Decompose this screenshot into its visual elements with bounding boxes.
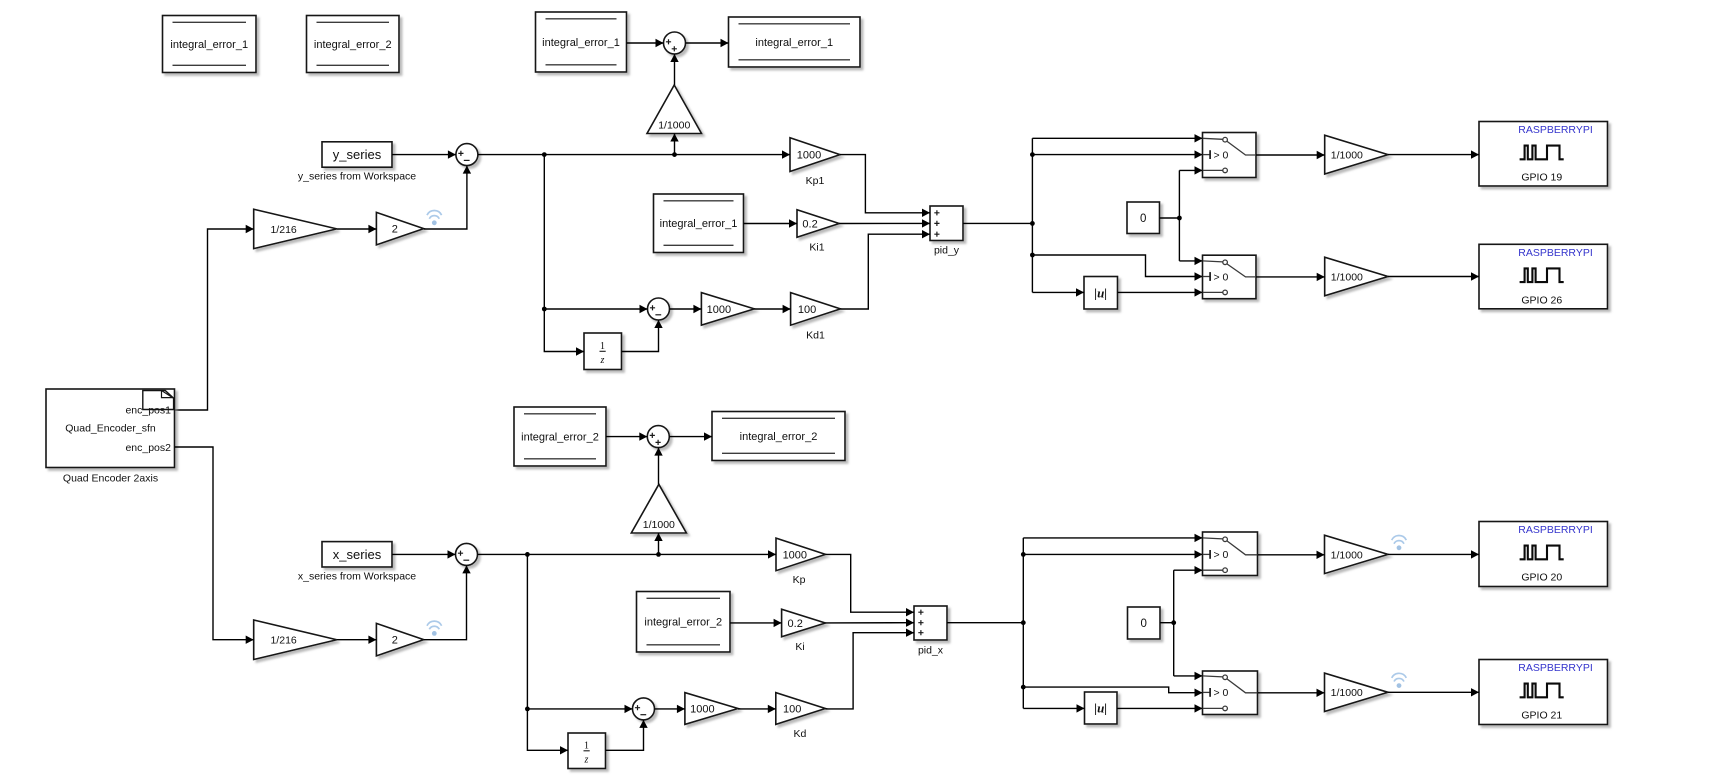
svg-text:RASPBERRYPI: RASPBERRYPI	[1518, 524, 1593, 536]
wire enc_pos2 to 1/216 (x)	[175, 447, 254, 644]
wireless badge on gain 2 (x)	[427, 621, 442, 636]
wire 1/z to S6 (x)	[606, 720, 648, 750]
wire trunk to abs (x)	[1023, 704, 1084, 712]
switch SW1 (y dir)	[1203, 133, 1257, 178]
unit delay 1/z (y)	[584, 333, 622, 370]
svg-text:0.2: 0.2	[802, 218, 817, 230]
label Ki	[795, 641, 804, 653]
subsystem Quad_Encoder_sfn	[46, 389, 175, 468]
label Kp	[793, 574, 806, 586]
svg-text:integral_error_2: integral_error_2	[521, 431, 599, 443]
gain 1000 (y derivative)	[701, 293, 754, 326]
sink GPIO 19 (RASPBERRYPI)	[1479, 122, 1608, 187]
wire x_series to S5	[392, 550, 456, 558]
wire branch down y error	[542, 155, 584, 356]
source block y_series	[322, 142, 392, 167]
data store read integral_error_1 (Ki path)	[654, 194, 744, 253]
svg-text:integral_error_1: integral_error_1	[755, 37, 833, 49]
svg-text:integral_error_1: integral_error_1	[542, 37, 620, 49]
svg-text:GPIO 19: GPIO 19	[1521, 172, 1562, 184]
sink GPIO 20 (RASPBERRYPI)	[1479, 522, 1608, 587]
svg-text:y_series from Workspace: y_series from Workspace	[298, 171, 416, 183]
svg-text:Quad_Encoder_sfn: Quad_Encoder_sfn	[65, 422, 156, 434]
data store read integral_error_2 (Ki path)	[637, 592, 731, 653]
svg-text:Kd: Kd	[793, 728, 806, 740]
svg-text:> 0: > 0	[1214, 549, 1229, 561]
svg-text:y_series: y_series	[333, 147, 382, 162]
sink GPIO 21 (RASPBERRYPI)	[1479, 660, 1608, 725]
wire Kd1 to pid_y in3	[840, 230, 930, 309]
svg-text:RASPBERRYPI: RASPBERRYPI	[1518, 124, 1593, 136]
wire gain2 to S5	[424, 565, 471, 639]
abs block |u| (x)	[1085, 692, 1118, 724]
svg-text:1: 1	[600, 341, 605, 352]
wire 1/1000d to GPIO21	[1388, 688, 1479, 696]
wire SW4 to 1/1000d	[1258, 689, 1325, 697]
wire const0 branch (x)	[1160, 620, 1176, 625]
sum block pid_x	[914, 606, 947, 640]
svg-text:Quad Encoder 2axis: Quad Encoder 2axis	[63, 472, 158, 484]
wire S6 to 1000 (x)	[655, 705, 685, 713]
svg-text:GPIO 26: GPIO 26	[1521, 295, 1562, 307]
svg-text:Kd1: Kd1	[806, 329, 825, 341]
wire branch to 1/1000 up	[670, 134, 678, 155]
annotation y_series from Workspace	[298, 171, 416, 183]
wire S2 to Kp1 (main y error)	[478, 150, 790, 158]
wire branch to S6	[527, 705, 632, 713]
wire SW2 to 1/1000b	[1256, 273, 1325, 281]
svg-text:1/216: 1/216	[270, 224, 296, 236]
wire const0 branch (y)	[1160, 216, 1182, 221]
wire const0 to SW3 in3	[1174, 566, 1203, 574]
svg-text:1/1000: 1/1000	[643, 519, 675, 531]
wire branch to 1/1000 up (x)	[654, 533, 662, 554]
gain Ki1 0.2	[797, 210, 839, 238]
sum block pid_y	[930, 206, 963, 241]
gain 1/1000 (GPIO19 scale)	[1325, 135, 1388, 174]
wire Ki1 to pid_y in2	[839, 219, 930, 227]
svg-text:RASPBERRYPI: RASPBERRYPI	[1518, 247, 1593, 259]
gain 1/1000 (GPIO20 scale)	[1325, 535, 1389, 573]
svg-text:enc_pos1: enc_pos1	[125, 405, 171, 417]
label pid_x	[918, 645, 944, 657]
svg-text:1/1000: 1/1000	[1331, 150, 1363, 162]
svg-text:integral_error_2: integral_error_2	[314, 39, 392, 51]
label Kd1	[806, 329, 825, 341]
wire branch down x error	[525, 554, 568, 754]
wire const0 vertical (x)	[1173, 570, 1175, 676]
svg-text:RASPBERRYPI: RASPBERRYPI	[1518, 662, 1593, 674]
svg-text:> 0: > 0	[1214, 271, 1229, 283]
wire const0 vertical (y)	[1178, 170, 1180, 261]
switch SW3 (x dir)	[1203, 532, 1258, 576]
wire trunk to abs	[1032, 288, 1084, 296]
wire trunk to SW3 in2	[1023, 550, 1202, 558]
wire trunk to SW1 in1	[1032, 134, 1202, 142]
label Kp1	[806, 175, 825, 187]
wire S1 to DSW	[686, 39, 729, 47]
wire y_series to S2	[392, 150, 456, 158]
wire SW1 to 1/1000	[1256, 151, 1325, 159]
data store memory integral_error_2	[307, 16, 400, 73]
gain Kp1 1000	[790, 138, 840, 172]
svg-text:1/1000: 1/1000	[658, 120, 690, 132]
gain 1/216 (x)	[254, 620, 337, 660]
svg-text:> 0: > 0	[1214, 149, 1229, 161]
constant 0 (x)	[1128, 607, 1161, 639]
wire 1/1000c to GPIO20	[1388, 550, 1479, 558]
svg-text:Kp: Kp	[793, 574, 806, 586]
wire DSR2 Ki to Ki	[730, 619, 782, 627]
wire gain1/1000up to S1	[670, 54, 678, 85]
svg-text:integral_error_2: integral_error_2	[740, 431, 818, 443]
gain 1/216 (y)	[254, 209, 337, 248]
svg-text:100: 100	[783, 703, 801, 715]
svg-text:0: 0	[1140, 213, 1146, 225]
label Ki1	[809, 241, 824, 253]
wire S5 to Kp (main x error)	[478, 550, 777, 558]
svg-text:pid_x: pid_x	[918, 645, 944, 657]
wire pid_y trunk vertical	[1030, 138, 1035, 292]
sum S4 (x integrator)	[647, 426, 669, 448]
wire 1/216 to 2 (x)	[337, 636, 377, 644]
wire const0 to SW1 in3	[1179, 166, 1202, 174]
wire const0 to SW2 in1	[1179, 257, 1202, 265]
wire Ki to pid_x in2	[825, 619, 914, 627]
unit delay 1/z (x)	[568, 733, 606, 769]
data store write integral_error_1	[729, 17, 861, 67]
gain 1000 (x derivative)	[685, 693, 738, 725]
wire 1/1000 to GPIO19	[1388, 150, 1479, 158]
wire S4 to DSW2	[669, 432, 712, 440]
label Quad Encoder 2axis	[63, 472, 158, 484]
svg-text:2: 2	[392, 224, 398, 236]
constant 0 (y)	[1127, 202, 1160, 234]
svg-text:Ki1: Ki1	[809, 241, 824, 253]
gain 1/1000 (GPIO26 scale)	[1325, 257, 1388, 296]
wire enc_pos1 to 1/216	[175, 225, 254, 410]
wire pid_x trunk vertical	[1021, 538, 1026, 709]
svg-text:z: z	[584, 754, 589, 765]
wire 1000 to Kd1	[754, 305, 790, 313]
svg-text:integral_error_1: integral_error_1	[170, 39, 248, 51]
svg-text:1: 1	[584, 740, 589, 751]
data store memory integral_error_1	[163, 16, 257, 73]
svg-text:Kp1: Kp1	[806, 175, 825, 187]
wire SW3 to 1/1000c	[1258, 551, 1325, 559]
svg-text:enc_pos2: enc_pos2	[125, 442, 171, 454]
data store read integral_error_2 (loop x)	[514, 407, 606, 466]
svg-text:1/1000: 1/1000	[1331, 687, 1363, 699]
svg-text:2: 2	[392, 635, 398, 647]
wireless badge on gain 2 (y)	[427, 211, 442, 226]
gain Kd1 100	[791, 293, 841, 326]
wire S3 to 1000	[670, 305, 702, 313]
gain 2 (y)	[376, 212, 423, 245]
svg-text:integral_error_2: integral_error_2	[644, 617, 722, 629]
gain 1/1000 (GPIO21 scale)	[1325, 673, 1389, 711]
gain Ki 0.2	[782, 609, 826, 637]
wire DSR2 to S4	[606, 432, 647, 440]
svg-text:100: 100	[798, 304, 816, 316]
svg-text:1/1000: 1/1000	[1331, 549, 1363, 561]
gain Kp 1000	[776, 538, 826, 571]
svg-text:|u|: |u|	[1094, 701, 1107, 716]
abs block |u| (y)	[1084, 277, 1118, 310]
data store read integral_error_1 (loop y)	[536, 12, 627, 72]
svg-text:1000: 1000	[707, 304, 731, 316]
svg-text:x_series from Workspace: x_series from Workspace	[298, 570, 416, 582]
wire pid_y out trunk	[963, 221, 1035, 226]
svg-text:> 0: > 0	[1214, 687, 1229, 699]
svg-text:1/216: 1/216	[270, 635, 296, 647]
wire trunk to SW4 in2	[1023, 687, 1202, 697]
wire trunk to SW3 in1	[1023, 534, 1202, 542]
data store write integral_error_2	[712, 412, 845, 461]
source block x_series	[322, 542, 392, 567]
svg-text:1000: 1000	[797, 150, 821, 162]
svg-text:1/1000: 1/1000	[1331, 271, 1363, 283]
wireless badge GPIO20 path	[1392, 536, 1407, 551]
gain Kd 100	[776, 693, 826, 725]
label Kd	[793, 728, 806, 740]
sum S2 (y error)	[456, 144, 478, 166]
wire 1/z to S3	[622, 320, 663, 352]
gain 2 (x)	[376, 623, 423, 656]
gain 1/1000 (x integrator scale)	[631, 484, 686, 533]
wire trunk to SW2 in2	[1032, 255, 1202, 281]
svg-text:Ki: Ki	[795, 641, 804, 653]
svg-text:z: z	[600, 355, 605, 366]
svg-text:GPIO 21: GPIO 21	[1521, 710, 1562, 722]
switch SW2 (y pwm)	[1203, 255, 1257, 299]
wire 1/1000up to S4	[654, 448, 662, 485]
wire gain2 to S2	[424, 166, 471, 229]
wire trunk to SW1 in2	[1032, 150, 1202, 158]
svg-text:GPIO 20: GPIO 20	[1521, 572, 1562, 584]
wire const0 to SW4 in1	[1174, 672, 1203, 680]
sum S5 (x error)	[456, 543, 478, 565]
gain 1/1000 (y integrator scale)	[647, 85, 702, 134]
wire pid_x out trunk	[947, 620, 1026, 625]
svg-text:pid_y: pid_y	[934, 245, 960, 257]
switch SW4 (x pwm)	[1203, 671, 1258, 715]
sum S1 (y integrator)	[664, 32, 686, 54]
wire 1/216 to 2	[337, 225, 377, 233]
wire branch to S3	[544, 305, 647, 313]
wire 1000 to Kd	[738, 705, 776, 713]
wire Kp1 to pid_y in1	[840, 155, 930, 217]
wire abs to SW2 in3	[1118, 288, 1203, 296]
svg-text:x_series: x_series	[333, 547, 382, 562]
wireless badge GPIO21 path	[1392, 673, 1407, 688]
annotation x_series from Workspace	[298, 570, 416, 582]
wire abs to SW4 in3	[1117, 704, 1203, 712]
wire DSR to S1	[627, 39, 664, 47]
svg-text:1000: 1000	[783, 549, 807, 561]
svg-text:1000: 1000	[690, 703, 714, 715]
wire 1/1000b to GPIO26	[1388, 272, 1479, 280]
wire DSR Ki to Ki1	[744, 219, 798, 227]
sum S6 (x derivative)	[633, 698, 655, 720]
label pid_y	[934, 245, 960, 257]
svg-text:0.2: 0.2	[788, 618, 803, 630]
svg-text:|u|: |u|	[1094, 285, 1107, 300]
svg-text:0: 0	[1140, 618, 1146, 630]
wire Kd to pid_x in3	[825, 629, 914, 709]
wire Kp to pid_x in1	[826, 554, 915, 616]
sink GPIO 26 (RASPBERRYPI)	[1479, 244, 1608, 308]
sum S3 (y derivative)	[648, 298, 670, 320]
svg-text:integral_error_1: integral_error_1	[660, 218, 738, 230]
